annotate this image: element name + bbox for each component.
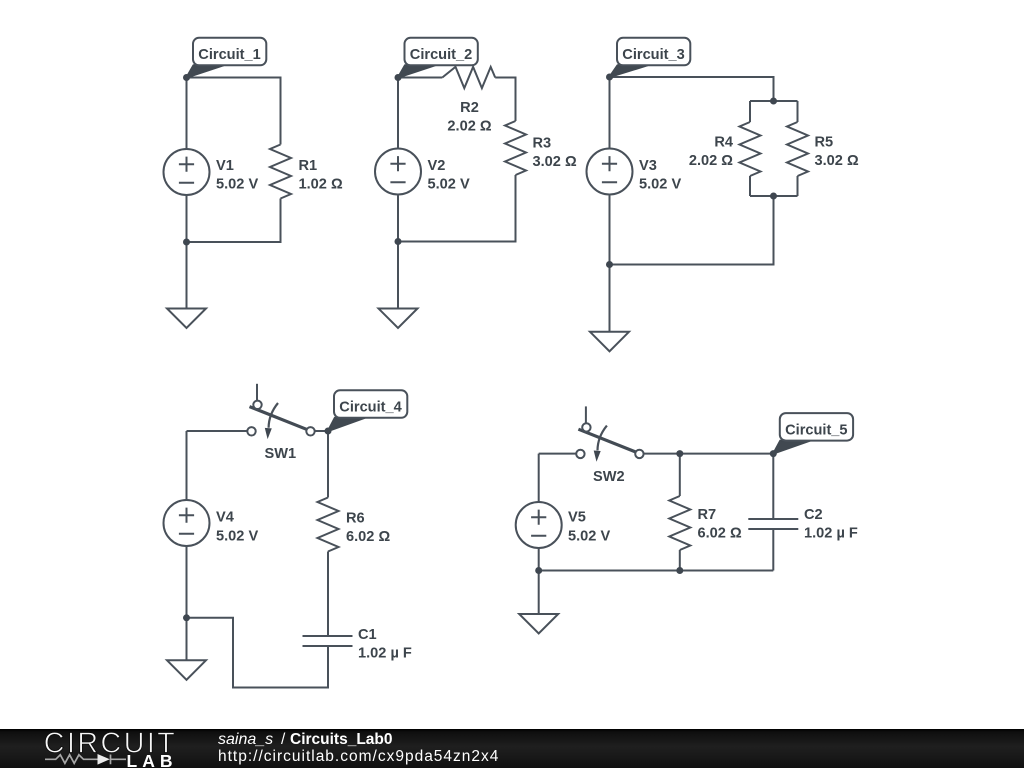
- svg-text:3.02 Ω: 3.02 Ω: [533, 154, 577, 170]
- svg-text:2.02 Ω: 2.02 Ω: [689, 153, 733, 169]
- svg-text:SW2: SW2: [593, 469, 625, 485]
- svg-text:2.02 Ω: 2.02 Ω: [447, 119, 491, 135]
- svg-text:5.02 V: 5.02 V: [428, 177, 470, 193]
- svg-text:V1: V1: [216, 158, 234, 174]
- svg-text:R5: R5: [815, 135, 834, 151]
- svg-text:R2: R2: [460, 100, 479, 116]
- svg-text:R6: R6: [346, 510, 365, 526]
- svg-text:http://circuitlab.com/cx9pda54: http://circuitlab.com/cx9pda54zn2x4: [218, 748, 499, 765]
- svg-text:C1: C1: [358, 627, 377, 643]
- svg-text:Circuit_2: Circuit_2: [410, 47, 472, 63]
- svg-text:6.02 Ω: 6.02 Ω: [698, 526, 742, 542]
- svg-text:Circuit_1: Circuit_1: [198, 47, 260, 63]
- svg-text:R1: R1: [299, 158, 318, 174]
- svg-text:Circuit_3: Circuit_3: [622, 47, 684, 63]
- svg-text:3.02 Ω: 3.02 Ω: [815, 153, 859, 169]
- svg-text:R4: R4: [714, 135, 734, 151]
- svg-text:Circuit_5: Circuit_5: [785, 423, 847, 439]
- svg-text:1.02 µ F: 1.02 µ F: [358, 646, 412, 662]
- svg-text:5.02 V: 5.02 V: [216, 529, 258, 545]
- svg-text:SW1: SW1: [265, 446, 297, 462]
- svg-text:5.02 V: 5.02 V: [639, 177, 681, 193]
- svg-text:1.02 µ F: 1.02 µ F: [804, 526, 858, 542]
- svg-text:1.02 Ω: 1.02 Ω: [299, 177, 343, 193]
- svg-text:Circuits_Lab0: Circuits_Lab0: [290, 731, 393, 748]
- svg-text:saina_s: saina_s: [218, 731, 273, 748]
- svg-text:V4: V4: [216, 510, 235, 526]
- svg-text:V5: V5: [568, 510, 586, 526]
- svg-text:5.02 V: 5.02 V: [568, 529, 610, 545]
- svg-text:C2: C2: [804, 507, 823, 523]
- svg-text:5.02 V: 5.02 V: [216, 177, 258, 193]
- svg-text:V3: V3: [639, 158, 657, 174]
- svg-text:R3: R3: [533, 136, 552, 152]
- svg-text:R7: R7: [698, 507, 717, 523]
- svg-text:LAB: LAB: [127, 751, 178, 768]
- svg-text:V2: V2: [428, 158, 446, 174]
- svg-text:/: /: [281, 731, 286, 748]
- svg-text:6.02 Ω: 6.02 Ω: [346, 529, 390, 545]
- svg-text:Circuit_4: Circuit_4: [339, 400, 402, 416]
